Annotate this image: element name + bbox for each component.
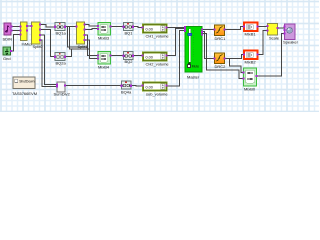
block MixB4 (97, 52, 112, 70)
block Master volume (184, 26, 203, 80)
svg-text:SDIN: SDIN (3, 37, 13, 42)
block BQ1a (54, 23, 67, 36)
block sub_volume (142, 83, 169, 97)
wire SDIN out1 to InMux in1 (12, 26, 21, 28)
wire BQ1a out to Split1 in (65, 26, 77, 28)
block Split1 (76, 22, 89, 49)
svg-text:Gnd: Gnd (3, 56, 11, 61)
wire Split1 out3 stub (85, 35, 88, 47)
wire Gnd to InMux in3 (11, 35, 21, 52)
block InMux (20, 22, 33, 46)
svg-text:DRC1: DRC1 (215, 36, 227, 41)
block Scale (267, 24, 280, 41)
block SDIN (3, 23, 13, 42)
wire MixB0 out to Speaker in3 (257, 34, 285, 77)
wire InMux out to Split0 in (28, 25, 34, 27)
svg-text:0.00: 0.00 (146, 28, 153, 32)
block MixB3 (97, 23, 112, 41)
svg-text:0.00: 0.00 (146, 86, 153, 90)
wire MixB4 out to BQ2 in (111, 55, 124, 57)
block Split0 (31, 22, 44, 49)
svg-text:MixB0: MixB0 (244, 87, 256, 92)
svg-text:CH2_volume: CH2_volume (146, 62, 170, 67)
wire SumDiv2 out to BQ4a in (65, 85, 122, 87)
wire BQ4a out to sub_volume in (131, 85, 143, 88)
wire tee BQ1a to MixB4 in1 (68, 27, 99, 56)
wire Split1 out1 to MixB3 in1 (85, 24, 99, 26)
wire MixB3 out to BQ1 in (111, 26, 124, 28)
svg-text:BQ4a: BQ4a (121, 90, 132, 95)
wire SDIN out2 to InMux in2 (12, 30, 21, 32)
svg-text:CH1_volume: CH1_volume (146, 34, 170, 39)
wire Split1 out4 stub (85, 40, 90, 49)
svg-text:Mute: Mute (192, 65, 199, 69)
svg-text:TAS5766EVM: TAS5766EVM (12, 91, 37, 96)
block BQ1 (123, 23, 135, 36)
wire Split0 out3 to SumDiv2 in1 (41, 35, 58, 85)
block MixB1 (243, 23, 259, 37)
wire BQ2 out to CH2_volume in (133, 55, 143, 57)
block Gnd (3, 47, 12, 61)
wire Master out1 to DRC1 in (202, 29, 215, 31)
block BQ4a (121, 81, 133, 95)
wire Split0 out2 to BQ2a in (41, 29, 56, 56)
grid background (0, 0, 319, 112)
wire BQ2a out (65, 49, 72, 57)
wire DRC1 out to MixB1 in (225, 27, 245, 30)
svg-text:MixB2: MixB2 (245, 60, 257, 65)
block Speaker (283, 24, 299, 45)
svg-text:Scale: Scale (269, 36, 280, 41)
wire MixB1 out to Scale in1 (258, 26, 268, 28)
svg-text:Split1: Split1 (78, 44, 89, 49)
wire Master out2 to DRC2 in (202, 32, 215, 59)
block SumDiv2 (54, 82, 71, 97)
wire DRC2 tee to MixB0 in1 (230, 59, 244, 73)
wire MixB2 out to Scale in2 (258, 31, 268, 55)
block BQ2 (123, 52, 135, 64)
block MixB2 (243, 51, 259, 65)
wire Split0 out1 to BQ1a in (41, 24, 56, 27)
wire Split1 out2 to MixB3 in2 (85, 28, 99, 31)
svg-text:ShutDown: ShutDown (19, 80, 34, 84)
svg-text:MixB1: MixB1 (245, 32, 257, 37)
svg-text:BQ1: BQ1 (125, 31, 134, 36)
svg-text:MixB4: MixB4 (98, 65, 110, 70)
ShutDown control panel (12, 77, 37, 96)
svg-text:sub_volume: sub_volume (146, 92, 168, 97)
wire sub_volume out to Master in3 (167, 31, 186, 86)
wire tee BQ1a to MixB4 in2 (70, 27, 99, 59)
svg-text:0.00: 0.00 (146, 56, 153, 60)
block CH2_volume (142, 53, 170, 67)
wire Master out3 to MixB0 in2 (202, 34, 244, 79)
wire Scale out to Speaker in1 (278, 27, 285, 29)
wire CH1_volume out to Master in1 (167, 27, 186, 29)
svg-text:MixB3: MixB3 (98, 36, 110, 41)
svg-text:InMux: InMux (22, 41, 33, 46)
block BQ2a (54, 53, 67, 66)
svg-text:Speaker: Speaker (283, 40, 299, 45)
svg-text:BQ2a: BQ2a (56, 61, 67, 66)
svg-text:SumDiv2: SumDiv2 (54, 92, 71, 97)
wire DRC2 out to MixB2 in (225, 55, 245, 59)
svg-text:DRC2: DRC2 (215, 64, 227, 69)
wire CH2_volume out to Master in2 (167, 29, 186, 56)
block DRC2 (214, 53, 227, 69)
svg-text:Split0: Split0 (33, 44, 44, 49)
block CH1_volume (142, 25, 170, 39)
block DRC1 (214, 25, 227, 41)
svg-text:Master: Master (187, 75, 200, 80)
wire BQ1 out to CH1_volume in (133, 27, 143, 28)
wire Split0 out4 to SumDiv2 in2 (41, 40, 58, 86)
svg-text:BQ1a: BQ1a (56, 31, 67, 36)
block MixB0 (243, 68, 258, 92)
svg-text:BQ2: BQ2 (125, 59, 134, 64)
